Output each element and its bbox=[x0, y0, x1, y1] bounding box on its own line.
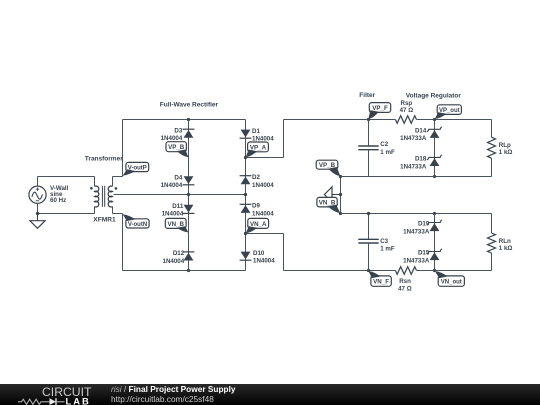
junction D19 top bbox=[433, 212, 436, 215]
diode D11 bbox=[184, 205, 194, 213]
CircuitLab logo diode symbol bbox=[50, 398, 57, 405]
svg-text:Rsp: Rsp bbox=[401, 100, 413, 107]
svg-text:VN_A: VN_A bbox=[250, 221, 267, 228]
svg-text:D3: D3 bbox=[174, 127, 182, 134]
junction bottom rail left column bbox=[187, 269, 190, 272]
svg-text:1N4733A: 1N4733A bbox=[400, 135, 427, 142]
svg-text:VN_F: VN_F bbox=[373, 279, 389, 286]
ground at filter midpoint bbox=[332, 194, 341, 196]
wire filter bottom to Rsn bbox=[369, 270, 396, 272]
svg-text:V-outP: V-outP bbox=[128, 165, 147, 171]
junction VN_out node bbox=[433, 269, 436, 272]
wire Rsp to zener column bbox=[417, 119, 435, 121]
net flag VP_B at rectifier bbox=[166, 142, 186, 152]
net flag V-outP bbox=[126, 162, 149, 171]
svg-text:VP_B: VP_B bbox=[319, 162, 336, 169]
diode D1 bbox=[241, 130, 251, 138]
wire VN_A to filter bottom bbox=[246, 233, 284, 235]
junction ground tap bbox=[339, 193, 342, 196]
capacitor C3 bbox=[368, 214, 370, 240]
resistor RLp bbox=[491, 120, 493, 138]
zener diode D15 bbox=[430, 252, 440, 260]
svg-text:RLp: RLp bbox=[499, 142, 511, 149]
junction center tap left column bbox=[187, 193, 190, 196]
wire left diode column bbox=[188, 120, 190, 271]
wire bottom section top rail bbox=[341, 213, 492, 215]
svg-text:D14: D14 bbox=[415, 128, 427, 135]
net flag VP_F bbox=[369, 103, 390, 113]
svg-text:VN_out: VN_out bbox=[441, 280, 462, 286]
wire secondary bottom to bottom rail bbox=[112, 206, 114, 213]
diode D12 bbox=[184, 253, 194, 261]
svg-text:1N4004: 1N4004 bbox=[161, 135, 183, 142]
zener diode D14 bbox=[430, 130, 440, 138]
CircuitLab logo resistor symbol bbox=[18, 399, 50, 404]
svg-text:1 mF: 1 mF bbox=[380, 246, 395, 253]
wire filter top to regulator bbox=[369, 119, 396, 121]
zener diode D18 bbox=[430, 158, 440, 166]
junction top rail left column bbox=[187, 118, 190, 121]
svg-text:1N4733A: 1N4733A bbox=[403, 228, 430, 235]
svg-text:Voltage Regulator: Voltage Regulator bbox=[406, 93, 462, 100]
net flag VN_out bbox=[438, 276, 464, 286]
svg-text:D11: D11 bbox=[172, 203, 184, 210]
net flag VN_F bbox=[371, 276, 391, 286]
svg-text:Transformer: Transformer bbox=[85, 156, 123, 163]
svg-text:1 kΩ: 1 kΩ bbox=[499, 245, 513, 252]
diode D3 bbox=[184, 130, 194, 138]
junction VN_F node bbox=[367, 269, 370, 272]
resistor RLn bbox=[491, 214, 493, 234]
svg-text:C2: C2 bbox=[380, 141, 388, 148]
junction VN_A node bbox=[244, 232, 247, 235]
junction VN_B node bbox=[339, 212, 342, 215]
footer title text bbox=[111, 385, 236, 404]
svg-text:RLn: RLn bbox=[499, 238, 511, 245]
wire Rsn to zener column bbox=[417, 270, 435, 272]
wire zener column bottom section bbox=[434, 214, 436, 271]
svg-text:1N4004: 1N4004 bbox=[162, 211, 184, 218]
junction VP_F node bbox=[367, 118, 370, 121]
wire source bottom rail bbox=[37, 203, 39, 213]
diode D10 bbox=[241, 252, 251, 260]
svg-text:60 Hz: 60 Hz bbox=[50, 197, 66, 204]
footer bar bbox=[0, 384, 540, 405]
wire bottom section bottom rail bbox=[435, 270, 492, 272]
diode D4 bbox=[184, 176, 194, 184]
svg-text:1N4004: 1N4004 bbox=[252, 182, 274, 189]
svg-text:D10: D10 bbox=[253, 250, 265, 257]
resistor Rsp bbox=[395, 116, 416, 124]
wire right diode column bbox=[245, 120, 247, 271]
voltage source V-Wall bbox=[29, 186, 46, 203]
net flag VP_B at filter bbox=[316, 160, 338, 169]
wire rectifier top rail bbox=[123, 119, 246, 121]
svg-text:1N4733A: 1N4733A bbox=[403, 257, 430, 264]
junction VP_B node bbox=[339, 175, 342, 178]
svg-text:VP_A: VP_A bbox=[250, 144, 267, 151]
net flag VN_B at filter bbox=[317, 197, 337, 207]
wire VP_B to VN_B vertical bbox=[340, 177, 342, 214]
svg-text:LAB: LAB bbox=[66, 395, 91, 405]
junction zener bottom top-section bbox=[433, 175, 436, 178]
diode D2 bbox=[241, 177, 251, 185]
junction at source bottom bbox=[36, 212, 39, 215]
ground GND bbox=[37, 214, 39, 221]
svg-text:47 Ω: 47 Ω bbox=[400, 107, 414, 114]
svg-text:Filter: Filter bbox=[359, 92, 375, 99]
transformer XFMR1 secondary winding bbox=[108, 186, 112, 207]
svg-text:D19: D19 bbox=[418, 221, 430, 228]
wire top bottom return bbox=[341, 176, 492, 178]
diode D9 bbox=[241, 205, 251, 213]
svg-text:XFMR1: XFMR1 bbox=[93, 217, 116, 224]
svg-text:D9: D9 bbox=[252, 203, 260, 210]
svg-text:VP_out: VP_out bbox=[439, 108, 460, 114]
transformer XFMR1 primary winding bbox=[95, 186, 99, 207]
svg-text:1N4004: 1N4004 bbox=[253, 258, 275, 265]
wire source top to transformer primary bbox=[37, 177, 39, 187]
svg-text:VP_B: VP_B bbox=[168, 144, 185, 151]
svg-text:1 kΩ: 1 kΩ bbox=[499, 149, 513, 156]
transformer phase dot primary bbox=[90, 187, 93, 190]
svg-text:D4: D4 bbox=[174, 174, 182, 181]
resistor Rsn bbox=[395, 267, 416, 275]
svg-text:C3: C3 bbox=[380, 238, 388, 245]
wire VP_A to filter top bbox=[246, 157, 284, 159]
svg-text:VP_F: VP_F bbox=[372, 105, 388, 112]
svg-text:D1: D1 bbox=[252, 128, 260, 135]
svg-text:D12: D12 bbox=[173, 250, 185, 257]
svg-text:Rsn: Rsn bbox=[399, 278, 411, 285]
net flag VN_A bbox=[248, 218, 269, 228]
wire center tap rail bbox=[114, 194, 246, 196]
svg-text:1N4004: 1N4004 bbox=[252, 210, 274, 217]
wire zener column top bbox=[434, 120, 436, 177]
wire secondary top to top rail bbox=[112, 177, 114, 187]
svg-text:VN_B: VN_B bbox=[167, 221, 184, 228]
svg-text:D18: D18 bbox=[415, 156, 427, 163]
junction VP_A node bbox=[244, 156, 247, 159]
svg-text:47 Ω: 47 Ω bbox=[398, 286, 412, 293]
zener diode D19 bbox=[430, 223, 440, 231]
svg-text:D2: D2 bbox=[252, 174, 260, 181]
svg-text:D15: D15 bbox=[418, 250, 430, 257]
junction center tap right column bbox=[244, 193, 247, 196]
transformer XFMR1 core bbox=[101, 186, 103, 207]
junction VP_out node bbox=[433, 118, 436, 121]
svg-text:VN_B: VN_B bbox=[319, 200, 336, 207]
capacitor C2 bbox=[368, 120, 370, 147]
label V-Wall sine 60 Hz bbox=[50, 185, 69, 204]
svg-text:1N4004: 1N4004 bbox=[163, 258, 185, 265]
svg-text:V-outN: V-outN bbox=[128, 222, 147, 228]
transformer phase dot secondary bbox=[115, 187, 118, 190]
net flag VP_A bbox=[248, 142, 269, 152]
wire regulator top output bbox=[435, 119, 492, 121]
net flag VP_out bbox=[437, 105, 461, 115]
net flag VN_B at rectifier bbox=[165, 218, 186, 228]
svg-text:1N4733A: 1N4733A bbox=[400, 163, 427, 170]
junction C3 top bbox=[367, 212, 370, 215]
svg-text:1 mF: 1 mF bbox=[380, 149, 395, 156]
svg-text:Full-Wave Rectifier: Full-Wave Rectifier bbox=[160, 101, 219, 108]
wire rectifier bottom rail bbox=[123, 270, 246, 272]
svg-text:1N4004: 1N4004 bbox=[161, 182, 183, 189]
net flag V-outN bbox=[126, 219, 149, 228]
